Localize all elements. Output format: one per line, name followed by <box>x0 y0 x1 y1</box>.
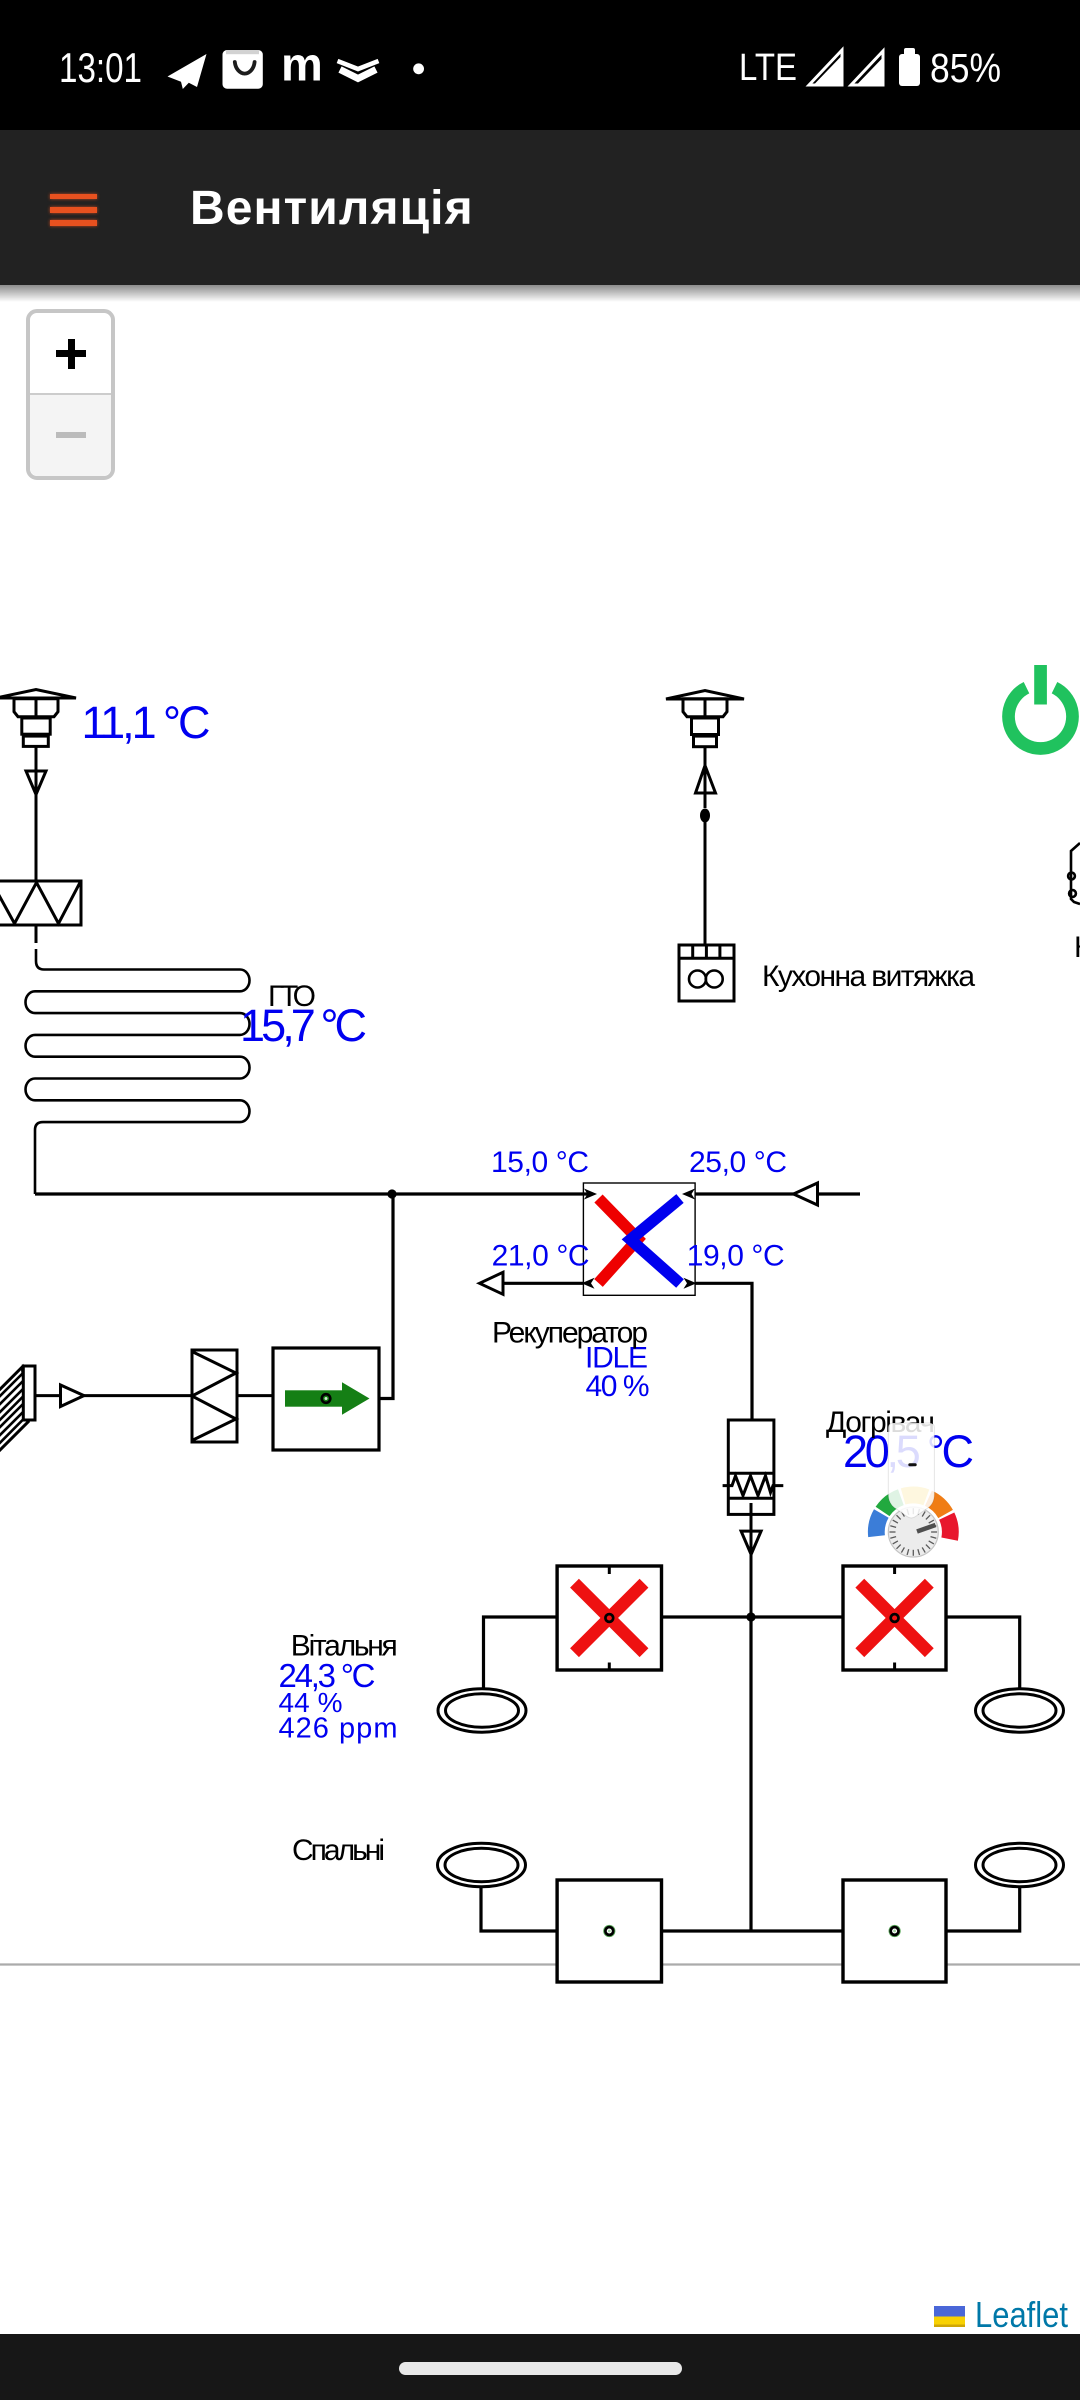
svg-text:85%: 85% <box>930 45 1001 91</box>
svg-text:15,0 °C: 15,0 °C <box>491 1146 589 1179</box>
svg-text:21,0 °C: 21,0 °C <box>492 1240 590 1273</box>
svg-text:11,1 °C: 11,1 °C <box>82 697 211 748</box>
svg-text:25,0 °C: 25,0 °C <box>689 1146 787 1179</box>
svg-text:426 ppm: 426 ppm <box>279 1713 398 1745</box>
svg-text:m: m <box>281 38 323 91</box>
svg-text:ГТО: ГТО <box>268 980 316 1013</box>
svg-text:13:01: 13:01 <box>59 44 142 91</box>
svg-text:Кухонна витяжка: Кухонна витяжка <box>762 960 975 993</box>
svg-text:19,0 °C: 19,0 °C <box>687 1240 785 1273</box>
svg-text:Рекуператор: Рекуператор <box>492 1317 648 1350</box>
svg-text:40 %: 40 % <box>586 1370 650 1403</box>
svg-text:LTE: LTE <box>739 47 797 89</box>
svg-text:Кухня: Кухня <box>1074 931 1080 964</box>
svg-text:Leaflet: Leaflet <box>975 2296 1068 2335</box>
svg-text:Вітальня: Вітальня <box>291 1629 398 1662</box>
svg-text:Спальні: Спальні <box>292 1834 385 1867</box>
